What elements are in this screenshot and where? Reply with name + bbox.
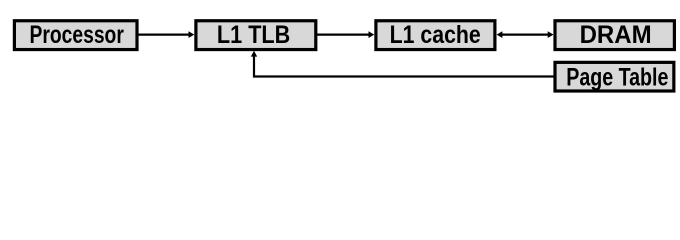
- svg-text:Page Table: Page Table: [566, 63, 668, 91]
- svg-text:DRAM: DRAM: [580, 21, 652, 49]
- svg-text:L1 cache: L1 cache: [390, 20, 481, 48]
- svg-text:L1 TLB: L1 TLB: [217, 20, 290, 48]
- svg-text:Processor: Processor: [30, 20, 124, 48]
